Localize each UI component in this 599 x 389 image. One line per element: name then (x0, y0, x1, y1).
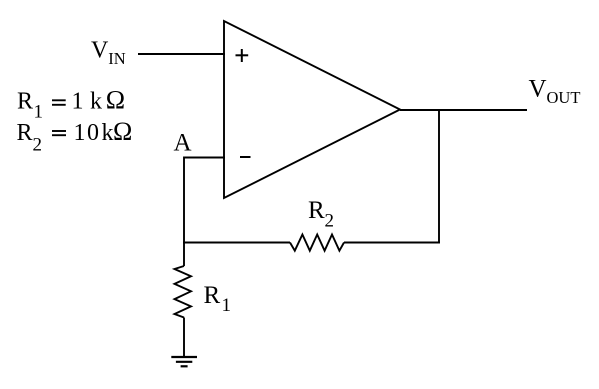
svg-text:V: V (91, 38, 109, 64)
resistor R2 (290, 235, 344, 251)
svg-text:OUT: OUT (547, 88, 581, 107)
svg-text:R: R (17, 120, 33, 146)
wire Vin to plus input (138, 53, 225, 55)
op-amp U1 (224, 21, 400, 198)
label R1 = 1 kOhm (17, 86, 125, 123)
wire feedback horizontal left of R2 (183, 242, 290, 244)
label R1 (beside resistor) (204, 282, 232, 316)
label Vout (529, 76, 581, 108)
wire op-amp output to Vout (400, 109, 527, 111)
label R2 (above resistor) (308, 197, 334, 232)
wire feedback horizontal right of R2 (344, 242, 440, 244)
svg-text:IN: IN (108, 49, 125, 68)
wire node A to minus input (184, 157, 226, 159)
svg-text:10: 10 (74, 120, 101, 146)
svg-text:k: k (102, 120, 114, 146)
svg-text:2: 2 (33, 135, 43, 156)
op-amp plus input marker (236, 49, 249, 62)
svg-text:k: k (90, 89, 102, 115)
svg-text:Ω: Ω (113, 117, 132, 146)
label R2 = 10 kOhm (17, 117, 133, 156)
wire feedback vertical from output (438, 110, 440, 244)
svg-text:R: R (17, 89, 33, 115)
svg-text:1: 1 (222, 295, 232, 316)
svg-text:R: R (204, 282, 221, 309)
resistor R1 (175, 266, 192, 318)
label Vin (91, 38, 126, 69)
svg-text:V: V (529, 76, 547, 103)
svg-text:1: 1 (72, 89, 84, 115)
op-amp minus input marker (240, 156, 251, 158)
svg-text:R: R (308, 197, 325, 224)
svg-text:Ω: Ω (106, 86, 125, 115)
wire node A vertical down to R1 (183, 157, 185, 267)
wire R1 to ground (183, 318, 185, 358)
svg-text:A: A (174, 130, 192, 157)
svg-text:1: 1 (34, 102, 44, 123)
equals sign line2 (52, 131, 66, 135)
ground (171, 357, 197, 366)
svg-text:2: 2 (325, 211, 335, 232)
equals sign line1 (52, 100, 66, 105)
